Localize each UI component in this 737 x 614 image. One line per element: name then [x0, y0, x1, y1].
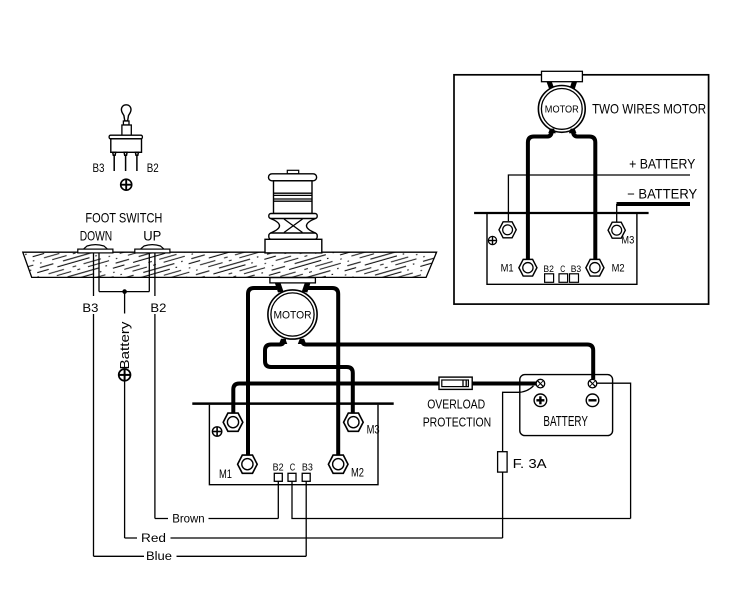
inset motor bottom terminal left — [548, 129, 556, 134]
thick wire M1 (motor left to M1) — [248, 288, 277, 456]
hex terminal M2 — [328, 455, 348, 473]
svg-text:M2: M2 — [612, 262, 625, 274]
svg-text:Battery: Battery — [117, 321, 132, 370]
control box flange — [192, 402, 393, 405]
inset hex terminal M3 — [608, 222, 625, 238]
overload protection fuse — [439, 377, 472, 389]
svg-text:M3: M3 — [367, 423, 380, 437]
svg-text:B2: B2 — [147, 161, 159, 175]
windlass base — [265, 239, 322, 253]
thick wire battery minus (motor bottom-right to battery) — [302, 339, 593, 379]
svg-text:− BATTERY: − BATTERY — [627, 187, 697, 202]
svg-text:B3: B3 — [93, 161, 105, 175]
wire minus terminal to C return — [597, 383, 631, 518]
inset screw symbol — [488, 236, 496, 244]
svg-text:B3: B3 — [302, 463, 313, 474]
thick wire M2 (motor right to M2) — [308, 288, 338, 456]
hex terminal M1 — [238, 455, 258, 473]
battery plus symbol — [534, 394, 547, 407]
svg-text:B2: B2 — [543, 264, 554, 275]
svg-text:Blue: Blue — [146, 551, 172, 563]
wire bus between foot switches — [99, 291, 149, 293]
svg-text:+ BATTERY: + BATTERY — [629, 157, 695, 172]
svg-text:MOTOR: MOTOR — [274, 310, 312, 322]
toggle switch bushing — [122, 125, 131, 135]
foot switch UP dome — [135, 245, 170, 253]
motor bottom terminal right — [298, 339, 306, 344]
screw symbol battery tap — [119, 369, 131, 381]
svg-text:DOWN: DOWN — [80, 228, 113, 244]
terminal square B2 — [274, 473, 282, 481]
svg-text:M1: M1 — [219, 467, 232, 481]
windlass cap — [269, 174, 317, 181]
motor bottom terminal left — [279, 339, 287, 344]
deck (hatched) — [23, 252, 437, 277]
inset control box body — [487, 214, 637, 284]
motor top connector right — [302, 283, 311, 293]
wire red — [125, 537, 503, 539]
junction dot battery tap — [122, 289, 127, 294]
svg-text:B2: B2 — [273, 463, 284, 474]
svg-text:B3: B3 — [82, 301, 98, 315]
wire UP inner to bus — [148, 253, 150, 292]
svg-text:Brown: Brown — [172, 514, 205, 526]
wire DOWN inner to bus — [98, 253, 100, 292]
control box body — [209, 405, 378, 485]
inset thick wire M2 — [573, 129, 596, 259]
toggle switch handle — [121, 105, 131, 121]
inset hex terminal M1 — [519, 259, 537, 276]
wire B3 from DOWN switch — [93, 253, 95, 556]
svg-text:B2: B2 — [150, 301, 166, 315]
wire battery tap down — [124, 292, 126, 538]
inset terminal square B3 — [570, 274, 579, 283]
terminal square B3 — [302, 473, 310, 481]
wire C return horizontal — [292, 481, 631, 518]
toggle switch pin 1 — [113, 152, 116, 171]
windlass bottom band — [269, 233, 317, 239]
windlass drum — [274, 181, 313, 214]
windlass drum grooves — [274, 193, 313, 201]
battery box — [520, 375, 613, 436]
terminal square C — [288, 473, 296, 481]
hex terminal M3 — [344, 413, 364, 431]
motor M (main) — [268, 290, 317, 339]
inset motor top connector left — [547, 82, 555, 90]
inset thick wire M1 — [528, 129, 552, 259]
motor top connector left — [275, 283, 284, 293]
inset motor mount — [542, 71, 583, 81]
inset terminal square C — [559, 274, 568, 283]
inset motor top connector right — [569, 82, 577, 90]
inset border — [454, 75, 709, 304]
motor mount under deck — [270, 278, 316, 283]
svg-text:OVERLOAD: OVERLOAD — [427, 397, 485, 412]
windlass gypsy top band — [269, 214, 317, 219]
svg-text:BATTERY: BATTERY — [543, 414, 588, 430]
svg-text:M1: M1 — [501, 262, 514, 274]
toggle switch pin 2 — [124, 152, 127, 171]
hex terminal battery plus — [223, 413, 243, 431]
svg-text:MOTOR: MOTOR — [545, 105, 579, 116]
fuse F 3A — [498, 452, 508, 472]
inset motor bottom terminal right — [569, 129, 577, 134]
inset terminal square B2 — [545, 274, 554, 283]
toggle switch body — [111, 139, 142, 153]
inset hex terminal M2 — [586, 259, 604, 276]
wire - battery to M3 — [616, 204, 618, 223]
battery terminal minus — [588, 379, 597, 388]
inset hex terminal battery plus — [499, 222, 516, 238]
svg-text:Red: Red — [141, 533, 166, 545]
wire F3A tap — [503, 386, 534, 538]
thick wire M3 (motor bottom-left to M3) — [265, 339, 353, 414]
wire + battery line — [508, 175, 690, 221]
svg-text:F. 3A: F. 3A — [513, 456, 547, 471]
wire - battery thick line — [617, 202, 691, 206]
svg-text:UP: UP — [143, 228, 161, 244]
svg-text:FOOT SWITCH: FOOT SWITCH — [85, 210, 162, 226]
windlass wildcat — [271, 219, 316, 234]
svg-text:TWO WIRES MOTOR: TWO WIRES MOTOR — [592, 101, 706, 117]
toggle switch cap plate — [109, 135, 142, 139]
svg-text:M2: M2 — [351, 466, 364, 480]
inset motor — [538, 86, 585, 133]
wire B2 from UP switch — [154, 253, 156, 519]
screw symbol below toggle — [121, 179, 132, 190]
svg-text:M3: M3 — [621, 234, 634, 246]
toggle switch stem — [123, 121, 129, 125]
battery terminal plus — [536, 379, 545, 388]
screw symbol control box — [212, 427, 221, 436]
wire brown — [155, 481, 278, 518]
svg-text:C: C — [290, 463, 296, 474]
wire blue — [94, 481, 307, 556]
toggle switch pin 3 — [135, 152, 138, 171]
thick wire battery plus (box terminal to battery) — [233, 384, 536, 414]
battery minus symbol — [586, 394, 599, 407]
foot switch DOWN dome — [78, 245, 113, 253]
svg-text:B3: B3 — [571, 264, 582, 275]
svg-text:C: C — [560, 264, 565, 275]
inset control box flange — [474, 212, 648, 214]
windlass top knob — [287, 170, 298, 174]
svg-text:PROTECTION: PROTECTION — [423, 415, 492, 430]
